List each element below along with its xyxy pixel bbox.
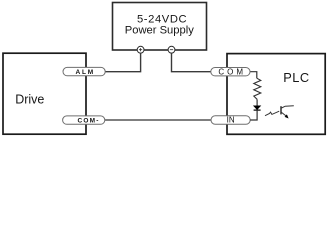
phototransistor Q1 emitter [282,112,289,118]
svg-text:IN: IN [227,116,235,125]
svg-text:ALM: ALM [76,69,95,76]
terminal pill ALM [63,67,105,76]
PLC box [227,54,325,135]
wire - terminal to COM [172,53,212,72]
terminal pill COM- (drive) [63,116,105,125]
svg-text:PLC: PLC [283,70,309,85]
svg-text:COM-: COM- [78,118,100,125]
drive box [3,53,86,134]
terminal pill IN (PLC) [211,116,250,125]
svg-text:Power Supply: Power Supply [125,24,194,36]
wire resistor to LED [256,99,258,106]
resistor R1 [254,78,261,99]
svg-text:COM: COM [218,67,246,76]
optocoupler light arrows [265,111,279,116]
power supply box PS1 [113,3,207,51]
wire COM- to IN [105,119,211,121]
LED D1 of optocoupler [254,106,261,110]
terminal pill COM (PLC) [211,67,250,76]
wire ALM to + terminal [105,53,141,72]
wire COM pill to resistor [250,72,257,79]
phototransistor Q1 collector [282,106,294,108]
svg-text:Drive: Drive [15,93,44,107]
phototransistor Q1 base bar [280,106,282,114]
terminal + of power supply [137,46,144,53]
wire LED to IN pill [250,110,257,120]
terminal - of power supply [168,46,175,53]
